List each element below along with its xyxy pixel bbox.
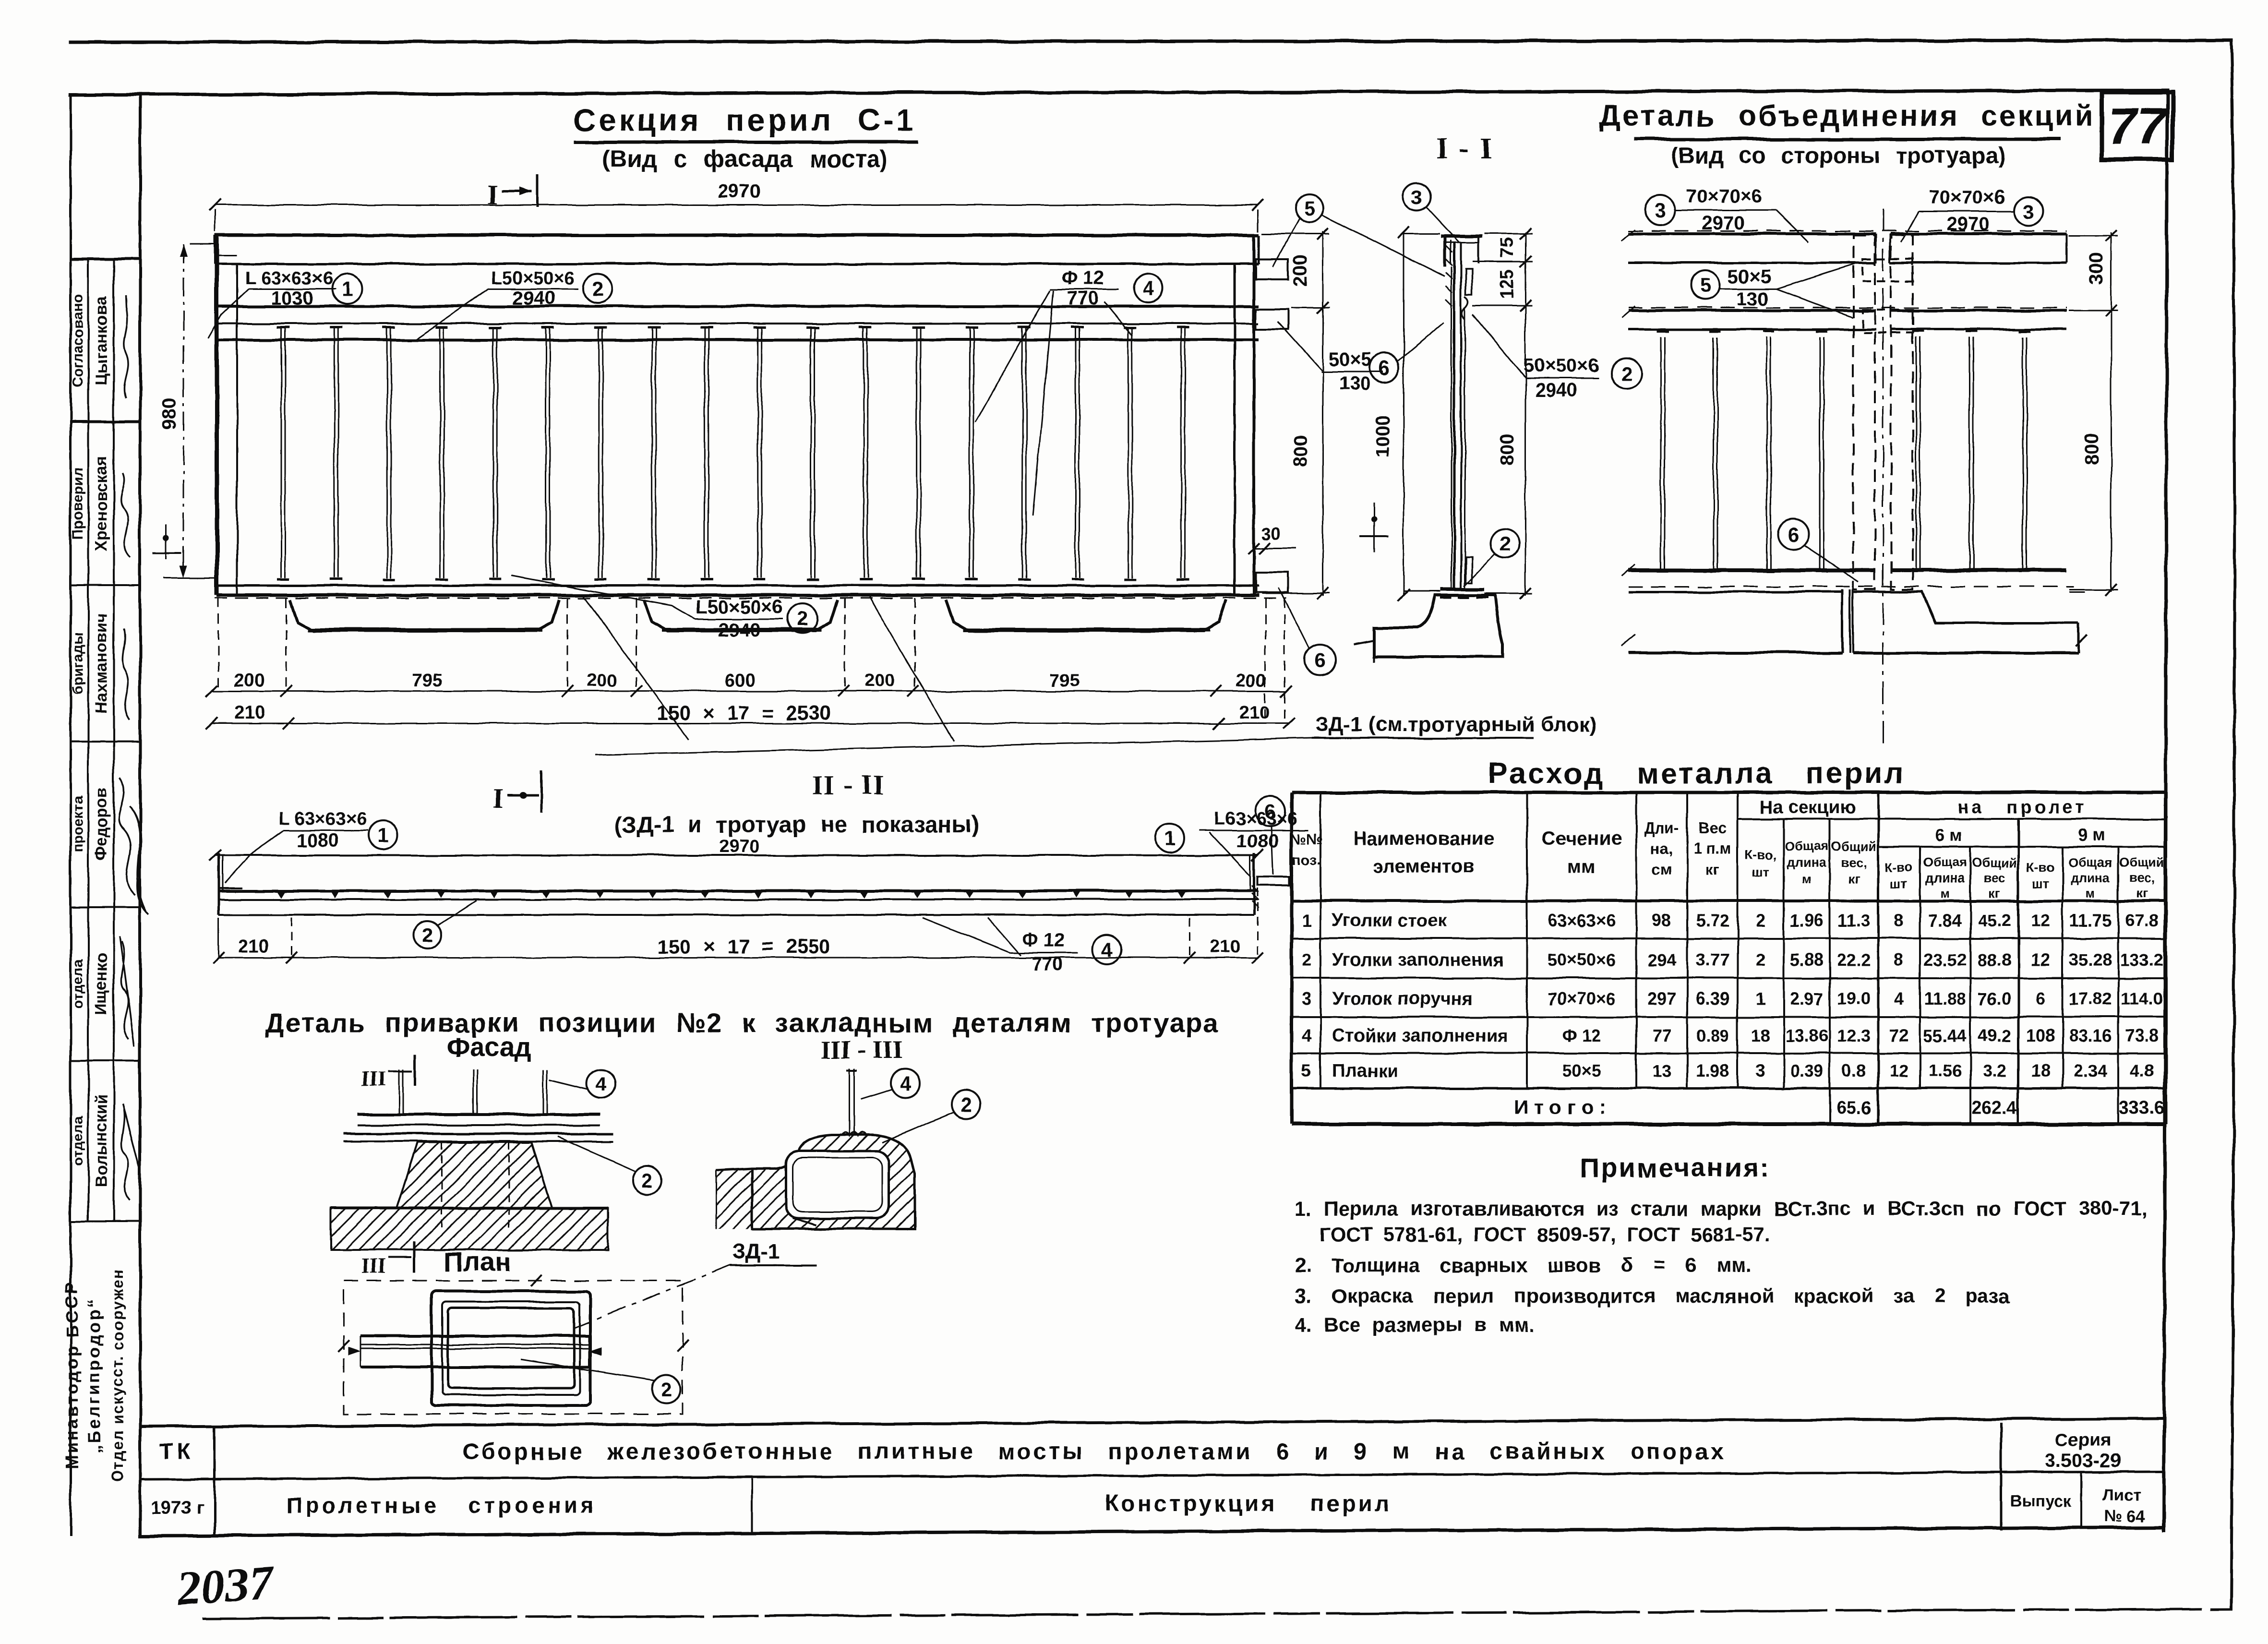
- svg-text:3: 3: [1302, 989, 1311, 1008]
- bar 12: [863, 340, 864, 578]
- svg-text:800: 800: [1496, 434, 1517, 467]
- facade bars Ф12 (3 pcs): [398, 1069, 400, 1115]
- svg-text:23.52: 23.52: [1923, 950, 1967, 970]
- callout circle 2 (bottom of I-I): [1490, 529, 1519, 558]
- callout circle 2 (bottom left): [414, 921, 442, 949]
- sheet top edge line: [70, 40, 2231, 42]
- label ЗД-1 (см. тротуарный блок): [595, 738, 1311, 755]
- row 5 signature: [120, 936, 134, 1046]
- svg-text:Общий: Общий: [1972, 855, 2017, 870]
- svg-text:К-во: К-во: [1885, 860, 1913, 875]
- svg-text:5.88: 5.88: [1790, 950, 1824, 970]
- svg-text:4: 4: [1894, 989, 1904, 1008]
- svg-text:1030: 1030: [271, 288, 313, 309]
- svg-text:ЗД-1 (см.тротуарный блок): ЗД-1 (см.тротуарный блок): [1315, 713, 1597, 736]
- svg-text:1000: 1000: [1372, 416, 1393, 458]
- handrail beam top line: [215, 854, 1258, 856]
- svg-text:Сборные железобетонные плитн: Сборные железобетонные плитные мосты про…: [463, 1439, 1726, 1464]
- joint plate 50x5 bottom right (pos 5): [1256, 572, 1288, 592]
- svg-text:м: м: [1940, 886, 1950, 900]
- callout circle 6 (bottom right plate): [1305, 645, 1335, 675]
- svg-text:50×5: 50×5: [1562, 1061, 1601, 1080]
- svg-text:3: 3: [1756, 1061, 1765, 1080]
- svg-text:III - III: III - III: [820, 1035, 902, 1064]
- svg-text:0.8: 0.8: [1842, 1061, 1866, 1080]
- table grid: [1292, 792, 2166, 1124]
- svg-text:50×50×6: 50×50×6: [1548, 950, 1616, 970]
- sidewalk block tub 1: [290, 600, 559, 631]
- joint plate 50x5 upper (welded): [1466, 269, 1472, 295]
- callout pos.5: 50x5 / 130: [1691, 271, 1719, 300]
- svg-text:2: 2: [1620, 362, 1632, 385]
- bar 7: [598, 340, 600, 578]
- dim 300 (right): [2111, 232, 2112, 312]
- break marks at left cut edge: [1621, 229, 1635, 241]
- svg-text:800: 800: [2081, 433, 2102, 465]
- bar 3: [386, 340, 388, 578]
- III-III embedded channel ЗД-1: [786, 1151, 889, 1218]
- left section upper angle band: [1628, 309, 1876, 312]
- svg-text:Сечение: Сечение: [1542, 828, 1622, 849]
- detail bar L2: [1713, 337, 1715, 569]
- row 6 signature: [121, 1104, 139, 1200]
- svg-text:210: 210: [1210, 936, 1240, 957]
- III-III weld lump at bar base: [841, 1132, 867, 1136]
- hidden post of right section (dashed): [1891, 235, 1913, 589]
- svg-text:5: 5: [1699, 274, 1710, 297]
- svg-text:ТК: ТК: [159, 1439, 194, 1464]
- svg-text:Цыганкова: Цыганкова: [92, 296, 110, 385]
- svg-text:1080: 1080: [297, 830, 339, 851]
- svg-text:Фасад: Фасад: [446, 1032, 531, 1062]
- svg-text:1. Перила изготавливаются из с: 1. Перила изготавливаются из стали марки…: [1295, 1197, 2147, 1220]
- row 4 signature (large flourish): [119, 778, 149, 914]
- svg-text:210: 210: [1239, 703, 1270, 723]
- svg-text:49.2: 49.2: [1978, 1026, 2011, 1045]
- svg-text:К-во: К-во: [2027, 860, 2054, 875]
- svg-text:83.16: 83.16: [2069, 1026, 2112, 1045]
- joint plate 50x5 lower: [1466, 557, 1472, 583]
- svg-text:отдела: отдела: [70, 959, 86, 1009]
- bar 14: [969, 340, 970, 578]
- svg-text:12: 12: [2031, 911, 2050, 930]
- svg-text:65.6: 65.6: [1836, 1098, 1872, 1118]
- svg-text:1.56: 1.56: [1928, 1061, 1962, 1080]
- III-III concrete curb block (hatched): [752, 1135, 915, 1229]
- svg-text:200: 200: [1236, 671, 1266, 691]
- svg-text:вес,: вес,: [1841, 855, 1866, 870]
- III-III callout circle 2: [951, 1090, 980, 1119]
- left end angle bracket: [217, 853, 220, 915]
- svg-text:Уголки заполнения: Уголки заполнения: [1332, 950, 1504, 970]
- svg-text:75: 75: [1497, 238, 1517, 258]
- svg-text:Ф 12: Ф 12: [1562, 1026, 1601, 1045]
- signature strip column line 1: [87, 259, 89, 1222]
- detail bar R2: [1969, 337, 1970, 569]
- sidewalk block left of joint: [1628, 591, 1842, 593]
- svg-text:800: 800: [1290, 435, 1311, 468]
- svg-text:2970: 2970: [718, 181, 761, 202]
- sidewalk block tub 3: [946, 600, 1226, 631]
- svg-text:6 м: 6 м: [1935, 825, 1962, 845]
- svg-text:Уголки стоек: Уголки стоек: [1332, 911, 1447, 931]
- svg-text:ЗД-1: ЗД-1: [732, 1240, 780, 1263]
- svg-text:Общий: Общий: [1831, 839, 1876, 853]
- svg-text:Минавтодор БССР: Минавтодор БССР: [62, 1281, 82, 1469]
- svg-text:55.44: 55.44: [1923, 1026, 1967, 1045]
- svg-text:7.84: 7.84: [1928, 911, 1962, 930]
- detail bar L4: [1819, 337, 1821, 569]
- svg-text:67.8: 67.8: [2125, 911, 2159, 930]
- svg-text:130: 130: [1737, 288, 1769, 310]
- right end angle bracket: [1253, 853, 1256, 915]
- svg-text:Ищенко: Ищенко: [92, 953, 110, 1015]
- hidden embedded parts (dashed) below railing: [215, 598, 1286, 599]
- svg-text:6: 6: [1788, 523, 1799, 546]
- bar 9: [704, 340, 706, 578]
- sheet number box 77: [2102, 92, 2172, 159]
- svg-text:4: 4: [1302, 1026, 1311, 1045]
- svg-text:980: 980: [159, 398, 180, 430]
- svg-text:30: 30: [1261, 524, 1281, 543]
- svg-text:6.39: 6.39: [1696, 989, 1729, 1008]
- hidden line under post foot: [1440, 597, 1490, 599]
- svg-text:1: 1: [341, 278, 352, 300]
- svg-text:I - I: I - I: [1436, 132, 1494, 165]
- detail bar L3: [1766, 337, 1768, 569]
- row 1 signature: [124, 295, 128, 398]
- bar 17: [1128, 340, 1129, 578]
- svg-text:8: 8: [1894, 950, 1904, 970]
- drawing frame bottom (title block bottom): [140, 1527, 2164, 1536]
- end plate 50x5 (right, pos 6): [1258, 876, 1289, 885]
- svg-text:кг: кг: [1848, 872, 1860, 886]
- svg-text:22.2: 22.2: [1837, 950, 1871, 970]
- svg-text:Деталь приварки позиции №2 к з: Деталь приварки позиции №2 к закладным д…: [264, 1008, 1219, 1038]
- svg-text:6: 6: [1264, 800, 1275, 823]
- bar 10: [757, 340, 758, 578]
- callout circle 2 (plan beam): [652, 1375, 681, 1404]
- svg-text:Ф 12: Ф 12: [1022, 930, 1065, 951]
- signature strip column line 2: [113, 259, 115, 1222]
- centre line of joint (dash-dot): [1883, 209, 1884, 749]
- svg-text:бригады: бригады: [70, 632, 86, 694]
- svg-text:И т о г о :: И т о г о :: [1514, 1095, 1606, 1118]
- svg-text:1: 1: [1164, 827, 1175, 850]
- svg-text:на пролет: на пролет: [1957, 797, 2087, 817]
- svg-text:77: 77: [1652, 1026, 1671, 1045]
- svg-text:Проверил: Проверил: [70, 468, 86, 540]
- svg-text:Расход металла перил: Расход металла перил: [1488, 757, 1905, 790]
- weld tick marks under handrail: [278, 892, 286, 898]
- svg-text:72: 72: [1889, 1026, 1908, 1045]
- svg-text:на,: на,: [1651, 840, 1673, 857]
- svg-text:333.6: 333.6: [2119, 1098, 2164, 1118]
- svg-text:1 п.м: 1 п.м: [1694, 840, 1732, 857]
- svg-text:Федоров: Федоров: [92, 788, 110, 861]
- right section upper angle band: [1890, 309, 2067, 312]
- svg-text:6: 6: [1314, 649, 1325, 672]
- svg-text:5: 5: [1302, 1061, 1311, 1080]
- bar 8: [651, 340, 653, 578]
- svg-text:35.28: 35.28: [2069, 950, 2112, 970]
- svg-text:2: 2: [1302, 950, 1311, 970]
- dimension row 1: 200/795/200/600/200/795/200: [212, 691, 1286, 692]
- svg-text:3.503-29: 3.503-29: [2045, 1450, 2121, 1471]
- svg-text:кг: кг: [2136, 886, 2148, 900]
- svg-text:3.2: 3.2: [1982, 1061, 2006, 1080]
- filler bars Ф12 (18 pcs): [277, 327, 1189, 579]
- svg-text:210: 210: [238, 936, 268, 957]
- svg-text:(Вид со стороны тротуара): (Вид со стороны тротуара): [1671, 143, 2006, 168]
- svg-text:отдела: отдела: [70, 1116, 86, 1166]
- svg-text:м: м: [2086, 886, 2095, 900]
- svg-text:см: см: [1652, 861, 1671, 878]
- signature table row borders: [71, 258, 140, 261]
- svg-text:795: 795: [1049, 671, 1080, 691]
- weld hatch on post left: [1446, 246, 1452, 306]
- lower filler angle 50x50x6 band: [217, 585, 1259, 587]
- svg-text:Ф 12: Ф 12: [1061, 267, 1104, 288]
- dimension row 2: 210 / 150x17=2530 / 210: [212, 723, 1289, 724]
- post foot line: [1440, 588, 1484, 591]
- svg-text:12.3: 12.3: [1837, 1026, 1871, 1045]
- svg-text:План: План: [444, 1247, 512, 1277]
- svg-text:Волынский: Волынский: [92, 1094, 110, 1187]
- plan embedded plate ЗД-1 (nested squares): [432, 1291, 590, 1405]
- svg-text:вес,: вес,: [2129, 871, 2154, 885]
- dim 2970 (top of elevation): [215, 204, 1258, 206]
- dim 980 (left): [183, 244, 184, 578]
- svg-text:Планки: Планки: [1332, 1061, 1398, 1081]
- svg-text:1.96: 1.96: [1790, 911, 1824, 930]
- dashed top edge overlay: [1628, 230, 2067, 232]
- svg-text:4. Все размеры в мм.: 4. Все размеры в мм.: [1295, 1313, 1535, 1336]
- drawing frame left (inner): [139, 94, 142, 1536]
- row 3 signature: [122, 629, 130, 720]
- svg-text:Выпуск: Выпуск: [2010, 1492, 2072, 1510]
- svg-text:Общая: Общая: [2068, 855, 2112, 870]
- svg-text:12: 12: [2031, 950, 2050, 970]
- svg-text:13.86: 13.86: [1785, 1026, 1828, 1045]
- detail bar L1: [1660, 337, 1662, 569]
- svg-text:Общий: Общий: [2119, 855, 2164, 870]
- svg-text:L50×50×6: L50×50×6: [696, 597, 783, 618]
- svg-text:70×70×6: 70×70×6: [1686, 186, 1762, 207]
- plan outer dashed contour: [344, 1281, 683, 1414]
- svg-text:294: 294: [1647, 950, 1676, 970]
- callout circle 2 (facade plate): [633, 1166, 661, 1195]
- svg-text:вес: вес: [1983, 871, 2005, 885]
- svg-text:0.39: 0.39: [1790, 1061, 1824, 1080]
- svg-text:2970: 2970: [1947, 214, 1990, 235]
- lower angle band right: [1890, 568, 2067, 572]
- svg-text:300: 300: [2086, 253, 2107, 285]
- svg-text:2940: 2940: [513, 288, 556, 309]
- leader diagonals to ЗД-1 note: [584, 597, 688, 739]
- svg-text:6: 6: [1379, 357, 1390, 379]
- svg-text:Наименование: Наименование: [1353, 828, 1494, 849]
- svg-text:длина: длина: [1925, 871, 1965, 885]
- svg-text:Согласовано: Согласовано: [70, 294, 86, 387]
- svg-text:200: 200: [234, 671, 264, 691]
- joint plate 50x5 middle right (pos 5): [1256, 309, 1288, 329]
- svg-text:73.8: 73.8: [2125, 1026, 2159, 1045]
- title block grid: [140, 1418, 2164, 1427]
- dim line right of elevation (200 / 800): [1322, 231, 1324, 596]
- svg-text:(Вид с фасада моста): (Вид с фасада моста): [602, 145, 888, 172]
- detail bar R1: [1916, 337, 1917, 569]
- weld mark near I-I: [1373, 503, 1375, 553]
- dim 30 bottom right: [1254, 548, 1296, 549]
- svg-text:77: 77: [2108, 97, 2168, 155]
- svg-text:длина: длина: [1787, 855, 1827, 870]
- sheet bottom edge line: [204, 1609, 2231, 1619]
- weld hatch at right plate: [1252, 886, 1259, 908]
- svg-text:70×70×6: 70×70×6: [1548, 989, 1616, 1008]
- svg-text:98: 98: [1652, 911, 1671, 930]
- upper filler angle weld lump: [1462, 297, 1468, 319]
- svg-text:770: 770: [1067, 288, 1099, 309]
- callout circle 3 (handrail angle): [1403, 183, 1431, 211]
- svg-text:Уголок поручня: Уголок поручня: [1332, 989, 1473, 1009]
- svg-text:130: 130: [1339, 373, 1371, 394]
- weld mark left: [166, 524, 167, 559]
- svg-text:Конструкция перил: Конструкция перил: [1104, 1491, 1392, 1516]
- svg-text:мм: мм: [1567, 856, 1596, 877]
- svg-text:Примечания:: Примечания:: [1580, 1152, 1770, 1183]
- svg-text:133.2: 133.2: [2120, 950, 2163, 970]
- svg-text:2.34: 2.34: [2074, 1061, 2107, 1080]
- callout pos.1 right: L63x63x6 / 1080: [1155, 824, 1184, 852]
- bar 5: [492, 340, 494, 578]
- signature strip left border: [70, 95, 72, 1536]
- svg-text:1: 1: [377, 824, 388, 847]
- svg-text:2: 2: [660, 1378, 672, 1401]
- svg-text:L 63×63×6: L 63×63×6: [245, 268, 333, 288]
- svg-text:проекта: проекта: [70, 796, 86, 852]
- svg-text:5: 5: [1304, 197, 1315, 220]
- svg-text:2: 2: [797, 607, 808, 630]
- callout circle 4 (facade bar): [587, 1069, 615, 1098]
- dim line 75 / 125 / 800 (right of I-I): [1525, 232, 1526, 595]
- svg-text:0.89: 0.89: [1696, 1026, 1729, 1045]
- drawing frame right: [2164, 90, 2167, 1530]
- svg-text:III: III: [361, 1067, 385, 1091]
- svg-text:12: 12: [1889, 1061, 1908, 1080]
- facade closure plate pos.2: [344, 1133, 613, 1135]
- right section handrail band: [1890, 232, 2067, 235]
- callout pos.3 right: 70x70x6 / 2970: [2014, 197, 2043, 226]
- svg-text:1: 1: [1302, 911, 1311, 930]
- svg-text:4.8: 4.8: [2130, 1061, 2154, 1080]
- III-III left ground tail: [716, 1168, 752, 1170]
- sidewalk block under I-I: [1375, 595, 1502, 657]
- svg-text:2970: 2970: [1702, 213, 1745, 234]
- handrail angle cross-section (top of post): [1441, 235, 1482, 238]
- svg-text:50×50×6: 50×50×6: [1523, 355, 1599, 376]
- svg-text:11.3: 11.3: [1837, 911, 1870, 930]
- sidewalk block right of joint (stepped): [1849, 589, 1851, 653]
- left post angle 63x63x6: [215, 236, 219, 595]
- bar 2: [334, 340, 335, 578]
- svg-text:200: 200: [1290, 255, 1311, 287]
- svg-text:1973 г: 1973 г: [151, 1498, 204, 1518]
- post stem (angle 63x63x6 edge view): [1453, 242, 1456, 589]
- sidewalk block tub 2: [644, 600, 838, 631]
- svg-text:4: 4: [900, 1072, 911, 1095]
- svg-text:№ 64: № 64: [2104, 1507, 2145, 1525]
- bar 6: [545, 340, 547, 578]
- svg-text:11.75: 11.75: [2069, 911, 2112, 930]
- svg-text:элементов: элементов: [1373, 856, 1475, 877]
- bar 4: [439, 340, 441, 578]
- svg-text:Общая: Общая: [1923, 855, 1967, 870]
- svg-text:150 × 17 = 2550: 150 × 17 = 2550: [657, 935, 831, 958]
- svg-text:2: 2: [960, 1093, 971, 1116]
- svg-text:3: 3: [1411, 186, 1422, 208]
- upper filler angle 50x50x6 band: [217, 305, 1259, 308]
- svg-text:Вес: Вес: [1699, 819, 1727, 837]
- bar 16: [1075, 340, 1076, 578]
- svg-text:длина: длина: [2071, 871, 2111, 885]
- svg-text:II - II: II - II: [812, 769, 885, 801]
- svg-text:2: 2: [1756, 911, 1765, 930]
- left section handrail band: [1628, 232, 1876, 235]
- svg-text:Пролетные строения: Пролетные строения: [286, 1493, 597, 1518]
- svg-text:8: 8: [1894, 911, 1904, 930]
- svg-text:Нахманович: Нахманович: [92, 613, 110, 714]
- svg-text:11.88: 11.88: [1924, 989, 1966, 1008]
- bar 1: [281, 340, 282, 578]
- svg-text:кг: кг: [1705, 861, 1719, 878]
- svg-text:шт: шт: [2032, 876, 2049, 891]
- svg-text:19.0: 19.0: [1837, 989, 1871, 1008]
- svg-text:Деталь объединения секций: Деталь объединения секций: [1599, 99, 2095, 132]
- svg-text:50×5: 50×5: [1728, 266, 1771, 288]
- plan beam pos.2 crossing: [360, 1334, 589, 1337]
- bar 18: [1181, 340, 1182, 578]
- svg-text:L50×50×6: L50×50×6: [491, 268, 574, 288]
- svg-text:ГОСТ 5781-61, ГОСТ 8509-57, Г: ГОСТ 5781-61, ГОСТ 8509-57, ГОСТ 5681-57…: [1320, 1223, 1770, 1246]
- svg-text:4: 4: [1142, 277, 1154, 300]
- svg-text:№№: №№: [1291, 831, 1323, 847]
- facade ground slab (hatched): [331, 1208, 608, 1250]
- svg-text:18: 18: [1751, 1026, 1770, 1045]
- callout circle 6 (joint plate bottom): [1778, 519, 1809, 550]
- svg-text:125: 125: [1497, 269, 1517, 299]
- svg-text:(ЗД-1 и тротуар не показаны): (ЗД-1 и тротуар не показаны): [615, 812, 979, 838]
- svg-text:2: 2: [422, 924, 433, 947]
- svg-text:1: 1: [1756, 989, 1765, 1008]
- svg-text:Хреновская: Хреновская: [92, 456, 110, 551]
- III-III callout circle 4: [891, 1069, 920, 1098]
- svg-text:2: 2: [592, 277, 603, 300]
- svg-text:9 м: 9 м: [2078, 825, 2106, 845]
- svg-text:На секцию: На секцию: [1760, 797, 1856, 817]
- bar 13: [916, 340, 917, 578]
- svg-text:2: 2: [1756, 950, 1765, 970]
- svg-text:200: 200: [864, 671, 895, 691]
- joint plate 50x5 upper (dashed): [1862, 259, 1913, 281]
- III-III bar Ф12: [849, 1068, 851, 1136]
- svg-text:17.82: 17.82: [2069, 989, 2112, 1008]
- svg-text:Секция перил С-1: Секция перил С-1: [574, 103, 916, 137]
- callout pos.3 left: 70x70x6 / 2970: [1645, 195, 1675, 225]
- svg-text:шт: шт: [1752, 865, 1769, 879]
- svg-text:2.97: 2.97: [1790, 989, 1824, 1008]
- svg-text:50×5: 50×5: [1329, 349, 1372, 370]
